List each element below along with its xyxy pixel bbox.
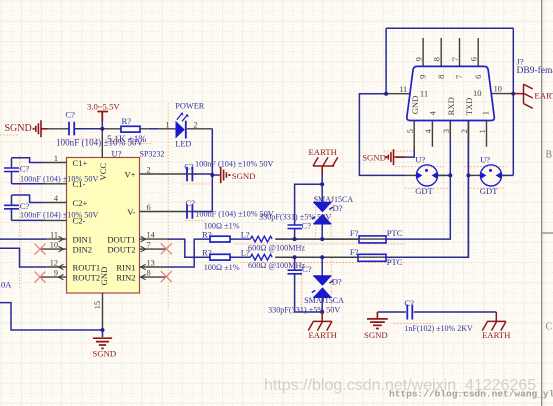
svg-text:8: 8 [147,269,151,278]
svg-text:PTC: PTC [387,228,403,238]
svg-text:SGND: SGND [362,152,386,162]
svg-text:RIN2: RIN2 [116,272,135,282]
svg-text:11: 11 [420,89,428,99]
svg-text:SMAJ15CA: SMAJ15CA [304,296,344,305]
svg-text:C2-: C2- [73,216,86,226]
svg-text:1: 1 [165,121,169,130]
svg-text:2: 2 [147,166,151,175]
svg-text:13: 13 [147,259,155,268]
svg-text:C1+: C1+ [73,158,88,168]
svg-text:EARTH: EARTH [309,147,338,157]
svg-text:2: 2 [460,129,469,133]
svg-text:7: 7 [147,241,151,250]
svg-text:100nF (104) ±10% 50V: 100nF (104) ±10% 50V [20,211,98,220]
svg-text:J?: J? [517,56,524,66]
svg-text:SGND: SGND [5,123,32,134]
svg-text:1nF(102) ±10% 2KV: 1nF(102) ±10% 2KV [404,324,473,333]
svg-text:D?: D? [332,277,342,287]
svg-text:11: 11 [399,85,407,94]
svg-text:F?: F? [350,228,359,238]
svg-text:100nF (104) ±10% 50V: 100nF (104) ±10% 50V [195,159,273,168]
svg-text:EARTH: EARTH [534,91,553,101]
svg-text:TXD: TXD [464,98,474,116]
svg-text:C1-: C1- [73,179,86,189]
svg-text:5.0A: 5.0A [0,279,12,289]
svg-text:U?: U? [480,155,490,165]
svg-text:C?: C? [302,264,312,274]
svg-text:U?: U? [415,155,425,165]
svg-text:5: 5 [406,129,415,133]
svg-text:VCC: VCC [98,163,108,181]
svg-text:SGND: SGND [232,171,256,181]
svg-text:RXD: RXD [446,97,456,115]
svg-text:PTC: PTC [387,257,403,267]
svg-text:EARTH: EARTH [482,330,511,340]
svg-text:8: 8 [437,75,446,79]
svg-text:C?: C? [186,198,196,208]
svg-text:L?: L? [241,229,250,239]
svg-text:V-: V- [127,207,135,217]
svg-text:15: 15 [93,301,102,309]
svg-text:100Ω ±1%: 100Ω ±1% [204,263,240,272]
svg-text:11: 11 [50,231,58,240]
svg-text:C: C [546,322,553,333]
svg-text:C?: C? [20,201,30,211]
svg-text:F?: F? [350,247,359,257]
svg-text:DIN1: DIN1 [73,234,93,244]
svg-text:C2+: C2+ [73,198,88,208]
svg-text:14: 14 [147,231,156,240]
svg-text:C?: C? [302,221,312,231]
svg-text:R?: R? [202,229,212,239]
svg-text:DOUT2: DOUT2 [107,244,135,254]
svg-text:3.0~5.5V: 3.0~5.5V [87,102,120,112]
svg-text:SP3232: SP3232 [140,149,165,158]
svg-text:DOUT1: DOUT1 [107,234,135,244]
svg-text:600Ω @100MHz: 600Ω @100MHz [248,261,305,270]
svg-text:B: B [546,150,553,161]
svg-text:DB9-female: DB9-female [517,65,553,76]
svg-text:GND: GND [99,267,109,286]
svg-text:10: 10 [494,85,502,94]
svg-text:100nF (104) ±10% 50V: 100nF (104) ±10% 50V [20,174,98,183]
svg-text:R?: R? [202,248,212,258]
svg-text:600Ω @100MHz: 600Ω @100MHz [248,244,305,253]
svg-text:12: 12 [50,259,58,268]
svg-text:SGND: SGND [364,330,388,340]
svg-text:SGND: SGND [93,348,117,358]
svg-text:5.1K ±1%: 5.1K ±1% [107,134,146,145]
svg-text:6: 6 [474,75,483,79]
svg-text:1: 1 [478,129,487,133]
svg-text:10: 10 [50,241,58,250]
svg-text:L?: L? [241,248,250,258]
svg-text:7: 7 [455,75,464,79]
svg-text:RIN1: RIN1 [116,262,135,272]
svg-text:2: 2 [193,120,197,129]
svg-text:330pF(331) ±5% 50V: 330pF(331) ±5% 50V [259,213,331,222]
svg-text:GDT: GDT [480,186,498,196]
svg-text:1: 1 [54,154,58,163]
svg-text:C?: C? [20,163,30,173]
svg-text:9: 9 [415,57,424,61]
svg-text:V+: V+ [124,169,135,179]
svg-text:7: 7 [451,57,460,61]
svg-text:1: 1 [482,111,491,115]
svg-text:https://blog.csdn.net/wang_yl: https://blog.csdn.net/wang_yl [389,389,553,400]
svg-text:3: 3 [442,129,451,133]
svg-text:GDT: GDT [415,186,433,196]
svg-text:EARTH: EARTH [309,330,338,340]
svg-text:C?: C? [65,110,75,120]
svg-text:D?: D? [333,203,343,213]
svg-text:330pF(331) ±5% 50V: 330pF(331) ±5% 50V [268,306,340,315]
svg-text:POWER: POWER [175,101,205,110]
svg-text:9: 9 [419,75,428,79]
svg-text:ROUT2: ROUT2 [73,272,101,282]
svg-text:C?: C? [404,298,414,308]
svg-text:DIN2: DIN2 [73,244,93,254]
svg-text:6: 6 [470,57,479,61]
svg-text:9: 9 [54,269,58,278]
svg-text:ROUT1: ROUT1 [73,262,101,272]
svg-text:8: 8 [433,57,442,61]
svg-text:GND: GND [410,96,420,115]
svg-text:R?: R? [122,116,132,126]
svg-text:6: 6 [147,203,151,212]
svg-text:10: 10 [473,88,482,98]
svg-text:LED: LED [175,140,191,149]
svg-text:C?: C? [184,161,194,171]
svg-text:U?: U? [112,148,122,158]
